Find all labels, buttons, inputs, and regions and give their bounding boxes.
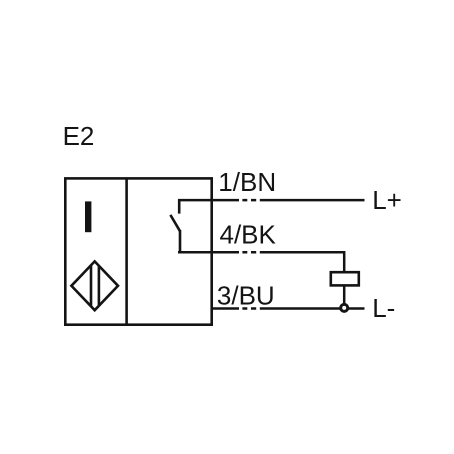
sensor internal divider <box>125 178 128 324</box>
sensor body outline <box>65 178 211 324</box>
wire 1/BN <box>178 199 365 202</box>
wire 4/BK <box>178 251 344 272</box>
svg-text:E2: E2 <box>63 121 95 151</box>
svg-text:4/BK: 4/BK <box>220 220 277 250</box>
svg-text:L-: L- <box>372 293 395 323</box>
switch contact S1 <box>170 199 180 253</box>
inductive sensor symbol (diamond with band) <box>71 261 118 310</box>
svg-text:L+: L+ <box>372 185 402 215</box>
svg-text:1/BN: 1/BN <box>218 167 276 197</box>
active face bar <box>85 201 91 232</box>
wire load to node <box>343 285 346 305</box>
node terminal circle <box>341 304 348 311</box>
svg-text:3/BU: 3/BU <box>217 281 275 311</box>
load resistor <box>331 272 359 285</box>
wire 3/BU <box>212 307 365 310</box>
